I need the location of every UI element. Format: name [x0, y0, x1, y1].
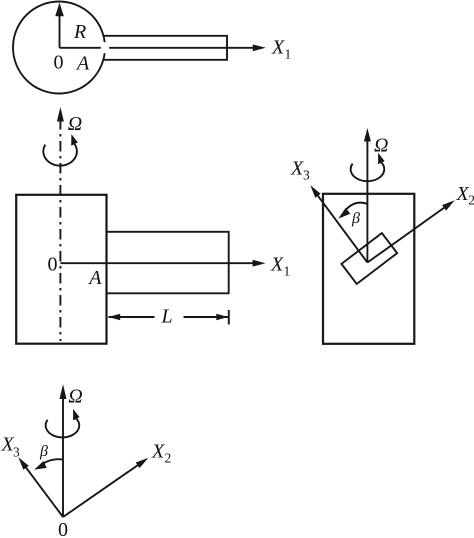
- svg-text:3: 3: [13, 445, 20, 460]
- svg-text:X: X: [270, 253, 284, 275]
- svg-text:2: 2: [165, 451, 172, 466]
- svg-text:1: 1: [284, 263, 291, 278]
- svg-text:L: L: [161, 306, 173, 328]
- svg-text:2: 2: [468, 192, 474, 207]
- svg-text:R: R: [73, 21, 86, 43]
- svg-text:Ω: Ω: [68, 386, 82, 408]
- svg-text:1: 1: [285, 47, 292, 62]
- svg-text:X: X: [290, 158, 304, 180]
- svg-text:X: X: [151, 441, 165, 463]
- svg-text:0: 0: [54, 52, 64, 74]
- svg-text:A: A: [87, 267, 102, 289]
- svg-text:β: β: [39, 443, 48, 460]
- svg-text:Ω: Ω: [374, 134, 388, 156]
- svg-text:0: 0: [48, 254, 58, 276]
- svg-text:0: 0: [58, 519, 68, 538]
- svg-text:β: β: [351, 210, 360, 227]
- svg-text:Ω: Ω: [68, 113, 82, 135]
- svg-text:X: X: [271, 37, 285, 59]
- svg-text:A: A: [75, 53, 90, 75]
- svg-text:3: 3: [303, 168, 310, 183]
